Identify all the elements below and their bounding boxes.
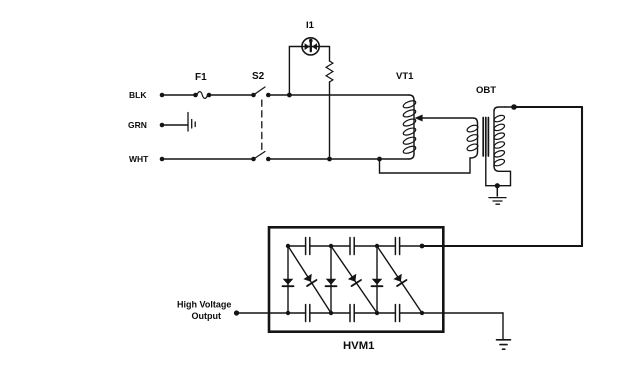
wire right side down to box <box>422 107 582 246</box>
svg-text:BLK: BLK <box>129 90 147 100</box>
node box top right <box>420 244 425 249</box>
wire GRN <box>162 124 188 126</box>
wire vertical C <box>376 246 378 313</box>
svg-text:HVM1: HVM1 <box>343 340 374 352</box>
diode D3 <box>326 279 337 286</box>
node OBT ground junction <box>495 183 500 188</box>
svg-text:I1: I1 <box>306 20 315 31</box>
svg-text:WHT: WHT <box>129 154 149 164</box>
wire tap to OBT primary <box>423 118 478 123</box>
node bottom A <box>286 311 290 315</box>
switch S2 pole A <box>251 87 270 97</box>
node resistor WHT junction <box>327 157 332 162</box>
capacitor C1 <box>306 238 310 255</box>
wire diagonal C <box>377 246 422 313</box>
wire vertical B <box>330 246 332 313</box>
svg-text:F1: F1 <box>195 72 207 83</box>
lamp I1 <box>302 38 319 55</box>
svg-text:High Voltage: High Voltage <box>177 300 231 310</box>
transformer OBT core <box>483 118 488 157</box>
node top B <box>329 244 333 248</box>
wire lamp to resistor <box>310 47 330 62</box>
svg-text:GRN: GRN <box>128 120 147 130</box>
svg-text:OBT: OBT <box>476 85 496 96</box>
node bottom B <box>329 311 333 315</box>
wire bottom exit to ground <box>502 313 504 339</box>
node top C <box>375 244 379 248</box>
wire diagonal A <box>288 246 331 313</box>
transformer VT1 winding <box>402 95 416 159</box>
switch S2 pole B <box>251 152 270 162</box>
wire top rail <box>288 245 422 247</box>
diode D6 <box>393 273 407 286</box>
ground OBT <box>489 186 506 205</box>
diode D4 <box>347 273 361 286</box>
wire resistor to WHT <box>329 82 331 159</box>
node HV output terminal <box>234 310 239 315</box>
fuse F1 <box>193 92 211 99</box>
wire diagonal B <box>331 246 377 313</box>
node bottom D <box>420 311 424 315</box>
capacitor C6 <box>395 305 399 322</box>
wire BLK S2 to VT1 <box>268 94 409 96</box>
wire secondary top thick <box>505 106 514 108</box>
wire lamp branch left <box>289 47 310 96</box>
node OBT secondary top junction <box>511 104 517 110</box>
node top A <box>286 244 290 248</box>
node lamp branch junction <box>287 93 292 98</box>
svg-text:VT1: VT1 <box>396 71 414 82</box>
diode D5 <box>372 279 383 286</box>
label High Voltage Output <box>177 300 231 322</box>
resistor <box>326 61 333 82</box>
node VT1 return junction <box>377 157 382 162</box>
node BLK terminal <box>160 93 165 98</box>
node bottom C <box>375 311 379 315</box>
transformer OBT primary <box>466 123 479 158</box>
wire fuse to S2 <box>209 94 254 96</box>
diode D2 <box>303 273 317 286</box>
wire OBT primary return <box>380 158 471 173</box>
ground GRN sideways <box>188 113 195 132</box>
capacitor C5 <box>350 305 354 322</box>
wire bottom rail <box>237 312 504 314</box>
wire WHT to S2 <box>162 158 254 160</box>
wire vertical A <box>287 246 289 313</box>
capacitor C2 <box>350 238 354 255</box>
capacitor C4 <box>306 305 310 322</box>
node GRN terminal <box>160 123 165 128</box>
wire core to ground junction <box>486 156 511 186</box>
svg-text:Output: Output <box>192 311 222 321</box>
node WHT terminal <box>160 157 165 162</box>
capacitor C3 <box>395 238 399 255</box>
svg-text:S2: S2 <box>252 71 265 82</box>
ground right <box>497 340 511 349</box>
switch S2 linkage dashed <box>261 100 263 150</box>
diode D1 <box>283 279 294 286</box>
wire WHT S2 to VT1 bottom <box>268 158 409 160</box>
tap arrow at VT1 <box>415 115 423 122</box>
transformer OBT secondary <box>493 107 510 186</box>
wire BLK to fuse <box>162 94 195 96</box>
box HVM1 <box>269 227 443 331</box>
